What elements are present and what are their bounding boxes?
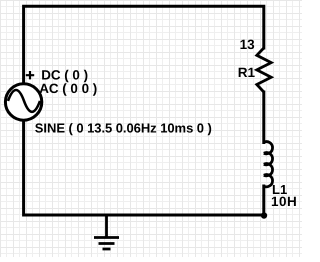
svg-text:SINE ( 0 13.5 0.06Hz 10ms 0 ): SINE ( 0 13.5 0.06Hz 10ms 0 ) [35,120,212,135]
wire left lower [24,121,264,215]
plus sign [26,71,34,79]
svg-text:R1: R1 [238,65,256,80]
svg-text:AC ( 0 0 ): AC ( 0 0 ) [39,81,97,96]
voltage source V1 circle [5,84,41,120]
svg-text:10H: 10H [271,194,297,209]
wire right mid [262,92,265,143]
svg-text:13: 13 [240,37,256,52]
inductor L1 [264,142,273,187]
junction dot [261,212,267,218]
wire right bottom [262,186,265,215]
ground [94,216,119,249]
wire top/left loop [24,6,264,84]
sine symbol [8,90,40,112]
resistor R1 [257,48,271,92]
